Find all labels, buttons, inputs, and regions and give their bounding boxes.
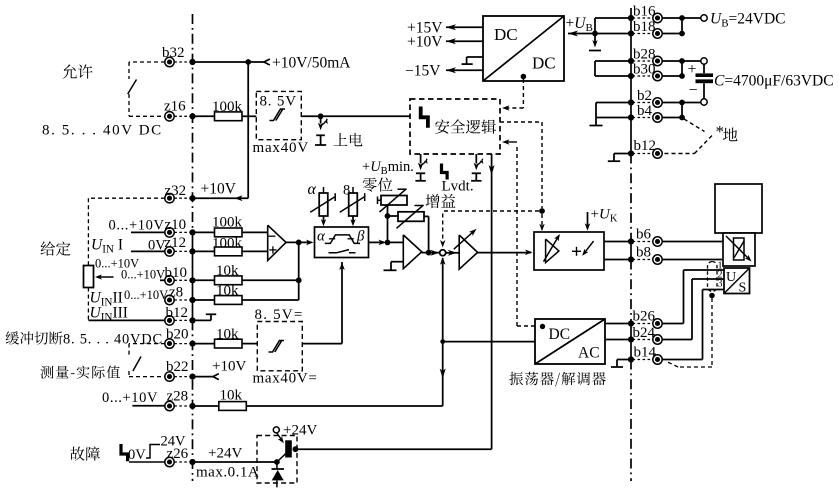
terminal b10 bbox=[165, 276, 174, 285]
wire z10 to 100k bbox=[193, 231, 215, 233]
svg-text:b18: b18 bbox=[633, 19, 656, 35]
svg-text:z32: z32 bbox=[165, 183, 187, 199]
svg-text:100k: 100k bbox=[212, 99, 243, 115]
transducer electronics U/S box bbox=[724, 268, 750, 294]
terminal b4 (right) bbox=[653, 113, 662, 122]
svg-text:+UBmin.: +UBmin. bbox=[362, 159, 414, 177]
contact +U_B min. bbox=[420, 154, 422, 164]
ramp generator box bbox=[315, 227, 369, 258]
svg-text:b24: b24 bbox=[633, 325, 656, 341]
svg-text:8: 8 bbox=[343, 183, 350, 199]
ramp enable arrow from comparator bbox=[341, 262, 343, 344]
terminal z10 bbox=[165, 228, 174, 237]
+U_K supply arrow bbox=[587, 212, 589, 226]
terminal z16 bbox=[165, 112, 174, 121]
svg-text:+10V: +10V bbox=[407, 34, 443, 51]
svg-text:−15V: −15V bbox=[405, 63, 441, 80]
dashed control dc-dc to safety logic bbox=[522, 79, 524, 108]
svg-text:0...+10V: 0...+10V bbox=[102, 390, 158, 406]
svg-text:10k: 10k bbox=[220, 388, 243, 404]
svg-text:z8: z8 bbox=[169, 285, 183, 301]
free-wheeling diode bbox=[276, 462, 278, 468]
svg-text:0...+10V: 0...+10V bbox=[124, 288, 168, 302]
svg-text:S: S bbox=[739, 281, 747, 296]
wire amp3 to output stage bbox=[478, 252, 532, 254]
svg-text:3: 3 bbox=[718, 279, 723, 290]
terminal z8 bbox=[165, 295, 174, 304]
U_B=24VDC socket bbox=[701, 15, 707, 21]
svg-text:z28: z28 bbox=[167, 389, 189, 405]
resistor 100k (z16 enable) bbox=[215, 112, 243, 121]
svg-text:0...+10V: 0...+10V bbox=[121, 268, 165, 282]
svg-text:b22: b22 bbox=[166, 359, 189, 375]
feedback arrow up into summing point bbox=[442, 258, 444, 342]
lead b10 bbox=[160, 279, 165, 281]
wire b10 to 10k bbox=[193, 279, 215, 281]
svg-text:max.0.1A: max.0.1A bbox=[196, 465, 259, 481]
wire pin2 to b24 bbox=[692, 278, 724, 280]
node amp1 output bbox=[286, 241, 311, 243]
enable switch (dashed, external) bbox=[129, 61, 165, 63]
amp2 ground input bbox=[391, 261, 403, 263]
wire 0V label line bbox=[129, 461, 165, 463]
svg-text:0V: 0V bbox=[128, 447, 146, 463]
fault relay box (dashed) bbox=[257, 436, 297, 484]
wire b20 to 10k bbox=[193, 343, 215, 345]
op-amp A3 (variable) bbox=[459, 235, 477, 269]
terminal b8 (right) bbox=[653, 255, 662, 264]
terminal b16 (right) bbox=[653, 13, 662, 22]
+15V output bbox=[446, 26, 483, 28]
terminal b2 (right) bbox=[653, 98, 662, 107]
-15V output bbox=[446, 69, 483, 71]
terminal b24 (right) bbox=[653, 335, 662, 344]
wire threshold to safety logic bbox=[301, 115, 410, 117]
wire z28 to 10k bbox=[193, 405, 219, 407]
svg-text:+10V: +10V bbox=[212, 359, 246, 375]
svg-text:0...+10V: 0...+10V bbox=[109, 218, 165, 234]
svg-text:b26: b26 bbox=[633, 309, 656, 325]
svg-text:+10V: +10V bbox=[201, 181, 237, 198]
wire b32 to +10V/50mA tap bbox=[193, 61, 249, 63]
wire 10k to demod signal bbox=[246, 405, 442, 407]
terminal b12 (right) bbox=[653, 149, 662, 158]
wire b28 to capacitor + bbox=[662, 60, 701, 62]
svg-text:b12: b12 bbox=[166, 305, 189, 321]
svg-text:b10: b10 bbox=[165, 265, 188, 281]
b12 ground tap (right of bus) bbox=[193, 319, 212, 321]
svg-text:−: − bbox=[689, 82, 698, 99]
right card-edge bus (dash-dot) bbox=[630, 8, 632, 154]
op-amp A2 bbox=[403, 235, 421, 269]
svg-text:24V: 24V bbox=[161, 434, 187, 450]
wire 10k to node (z8) bbox=[242, 299, 299, 301]
svg-text:DC: DC bbox=[494, 25, 518, 44]
wire 100k to amp1 - bbox=[242, 250, 268, 252]
terminal b18 (right) bbox=[653, 29, 662, 38]
svg-text:C=4700μF/63VDC: C=4700μF/63VDC bbox=[714, 73, 834, 90]
svg-text:8. 5V=: 8. 5V= bbox=[255, 307, 304, 323]
svg-text:10k: 10k bbox=[216, 263, 239, 279]
shield node bbox=[709, 293, 715, 299]
actual-value line down bbox=[442, 342, 444, 406]
pot 零位 (zero) bbox=[381, 196, 407, 206]
terminal z32 bbox=[165, 194, 174, 203]
terminal b30 (right) bbox=[653, 71, 662, 80]
label 给定 (setpoint) bbox=[41, 241, 71, 255]
wire z12 to 100k bbox=[193, 250, 215, 252]
contact Lvdt bbox=[475, 154, 477, 164]
svg-text:z10: z10 bbox=[165, 217, 187, 233]
svg-text:b4: b4 bbox=[637, 103, 653, 119]
svg-text:b20: b20 bbox=[166, 327, 189, 343]
wire z16 to 100k bbox=[193, 115, 215, 117]
svg-text:b8: b8 bbox=[636, 245, 651, 261]
resistor 100k (z12) bbox=[215, 247, 243, 256]
wire 100k to amp1 + bbox=[242, 231, 268, 233]
relay contact block bbox=[285, 440, 292, 457]
wire b30 right bbox=[662, 75, 682, 77]
current symbol bbox=[572, 250, 581, 252]
wire demod to actual-value node bbox=[443, 341, 535, 343]
svg-text:AC: AC bbox=[578, 345, 600, 362]
svg-text:z12: z12 bbox=[165, 235, 187, 251]
terminal b26 (right) bbox=[653, 319, 662, 328]
wire z26 to relay bbox=[193, 461, 277, 463]
+10V internal rail (vertical) bbox=[247, 62, 249, 198]
svg-text:+: + bbox=[688, 61, 697, 78]
terminal b28 (right) bbox=[653, 56, 662, 65]
resistor 10k (z8) bbox=[215, 296, 243, 305]
dashed oscillator to safety logic bbox=[516, 145, 518, 326]
terminal b20 bbox=[165, 339, 174, 348]
fault level icon bbox=[121, 444, 128, 461]
terminal z28 bbox=[165, 401, 174, 410]
capacitor C=4700uF/63VDC bbox=[701, 58, 707, 64]
svg-text:b16: b16 bbox=[633, 4, 656, 20]
dashed safety to summing/driver bbox=[500, 121, 542, 123]
pot 增益 (gain) bbox=[398, 212, 424, 222]
dc-dc converter U-DC/DC bbox=[483, 16, 564, 81]
svg-text:+24V: +24V bbox=[208, 446, 242, 462]
lead z10 bbox=[131, 231, 165, 233]
dashed b4 to earth point bbox=[684, 119, 705, 132]
+10V output bbox=[446, 40, 483, 42]
svg-text:max40V: max40V bbox=[253, 140, 309, 156]
terminal b6 (right) bbox=[653, 237, 662, 246]
wire b4 right bbox=[662, 117, 682, 119]
feedback node vertical bbox=[298, 242, 300, 300]
terminal b22 bbox=[165, 372, 174, 381]
wire 100k to threshold box bbox=[242, 115, 256, 117]
terminal b32 bbox=[165, 57, 174, 66]
wire ramp out to node bbox=[369, 241, 385, 243]
wire b16 to U_B socket bbox=[662, 17, 701, 19]
dashed arrow into summing point bbox=[442, 214, 444, 242]
svg-text:α: α bbox=[317, 229, 326, 245]
svg-text:Lvdt.: Lvdt. bbox=[442, 179, 474, 195]
label 故障 (fault) bbox=[70, 446, 100, 460]
connector (dashed) pins 1 2 3 bbox=[708, 262, 718, 292]
svg-text:8. 5V: 8. 5V bbox=[260, 94, 297, 110]
+10V/50mA output socket bbox=[264, 59, 270, 65]
svg-text:b6: b6 bbox=[636, 227, 652, 243]
0V drop symbol below +U_B bbox=[594, 34, 596, 44]
pot 8 (ramp time) bbox=[349, 193, 358, 216]
wire 10k to node bbox=[242, 279, 299, 281]
svg-text:b14: b14 bbox=[634, 345, 657, 361]
buffer cutoff switch (dashed, external) bbox=[129, 343, 165, 345]
wire demod to b24 bbox=[605, 339, 631, 341]
wire pin1 to b26 bbox=[684, 269, 725, 271]
setpoint potentiometer (external) bbox=[84, 266, 94, 288]
svg-text:b32: b32 bbox=[162, 45, 185, 61]
svg-text:b30: b30 bbox=[633, 62, 656, 78]
amp2 output node bbox=[422, 252, 440, 254]
power-on contact 上电 bbox=[320, 116, 322, 123]
terminal z26 bbox=[165, 457, 174, 466]
svg-text:100k: 100k bbox=[212, 215, 243, 231]
valve body box bbox=[715, 184, 762, 233]
driver symbol (variable) bbox=[546, 239, 559, 263]
wire b2-b4 link left + ground bbox=[596, 102, 631, 104]
label 上电 bbox=[334, 133, 363, 146]
wire output to b8 bbox=[604, 259, 631, 261]
wire output to b6 bbox=[604, 241, 631, 243]
dashed shield to b14 bbox=[711, 298, 713, 367]
resistor 100k (z10) bbox=[215, 228, 243, 237]
terminal b14 (right) bbox=[653, 355, 662, 364]
wire relay to safety logic bbox=[295, 448, 491, 450]
wire b28-b30 link left bbox=[595, 60, 631, 62]
label 振荡器/解调器 bbox=[509, 372, 605, 387]
svg-text:8. 5. . . 40V DC: 8. 5. . . 40V DC bbox=[42, 123, 163, 139]
lead z12 bbox=[131, 250, 165, 252]
wire pin3 to b14 bbox=[703, 289, 725, 291]
dc-dc control node bbox=[521, 74, 527, 80]
label 测量-实际值 bbox=[41, 366, 121, 379]
svg-text:b12: b12 bbox=[634, 138, 657, 154]
svg-text:z16: z16 bbox=[164, 99, 186, 115]
pot alpha (ramp up time) bbox=[319, 193, 328, 216]
svg-text:8. 5. . . 40VDC: 8. 5. . . 40VDC bbox=[63, 332, 163, 348]
svg-text:+24V: +24V bbox=[283, 423, 317, 439]
relay changeover contact bbox=[274, 459, 280, 465]
svg-text:U: U bbox=[726, 270, 736, 285]
svg-text:DC: DC bbox=[532, 54, 556, 73]
label 允许 (enable) bbox=[63, 64, 93, 78]
wire b6 to valve bbox=[662, 241, 723, 243]
dashed b12 to earth point bbox=[665, 153, 695, 155]
safety logic box 安全逻辑 (dashed) bbox=[410, 99, 500, 154]
terminal b12 bbox=[165, 316, 174, 325]
wire z8 to 10k bbox=[193, 299, 215, 301]
svg-text:α: α bbox=[308, 181, 317, 198]
b22 +10V tap bbox=[193, 376, 214, 378]
resistor 10k (b20) bbox=[215, 339, 243, 348]
svg-text:b2: b2 bbox=[637, 88, 652, 104]
svg-text:10k: 10k bbox=[216, 283, 239, 299]
wire b18 to +U_B arrow bbox=[568, 33, 631, 35]
wire 10k to comparator bbox=[242, 343, 257, 345]
output stage box bbox=[534, 232, 604, 270]
svg-text:DC: DC bbox=[549, 326, 571, 343]
node into amp2 bbox=[387, 216, 389, 242]
label 缓冲切断 8.5...40VDC bbox=[6, 331, 63, 344]
left card-edge bus (dash-dot) bbox=[192, 14, 194, 232]
dashed external setpoint wiring bbox=[88, 197, 165, 199]
terminal z12 bbox=[165, 247, 174, 256]
wire b12 to ground (right) bbox=[614, 153, 631, 155]
wire b2 to capacitor - bbox=[662, 102, 701, 104]
svg-text:max40V=: max40V= bbox=[253, 371, 318, 387]
wire comparator to ramp bbox=[302, 343, 342, 345]
wire b18 right bbox=[662, 33, 682, 35]
svg-text:+10V/50mA: +10V/50mA bbox=[272, 55, 351, 72]
svg-text:β: β bbox=[356, 229, 365, 245]
svg-text:*: * bbox=[716, 122, 725, 141]
proportional solenoid bbox=[723, 233, 755, 266]
op-amp A1 (input summing) bbox=[268, 225, 286, 260]
wire b8 to valve bbox=[662, 259, 723, 261]
svg-text:100k: 100k bbox=[212, 236, 243, 252]
lead b12 from external chain bbox=[88, 319, 164, 321]
comparator 8.5V= box (dashed) bbox=[257, 322, 302, 371]
resistor 10k (b10) bbox=[215, 276, 243, 285]
wire b16 link bbox=[595, 17, 631, 19]
wire +10V rail to z32 bbox=[193, 197, 249, 199]
summing point (circle) bbox=[440, 250, 446, 256]
resistor 10k (z28) bbox=[219, 402, 247, 411]
threshold 8.5V box (dashed) bbox=[256, 91, 301, 139]
oscillator/demodulator DC/AC box bbox=[535, 319, 605, 364]
svg-text:10k: 10k bbox=[216, 327, 239, 343]
wire demod to b26 bbox=[605, 323, 631, 325]
safety to fault-relay line bbox=[491, 154, 493, 449]
svg-text:b28: b28 bbox=[633, 47, 656, 63]
0V reference tap (ground) bbox=[467, 56, 483, 58]
b14 ground (left of bus) bbox=[617, 359, 631, 361]
